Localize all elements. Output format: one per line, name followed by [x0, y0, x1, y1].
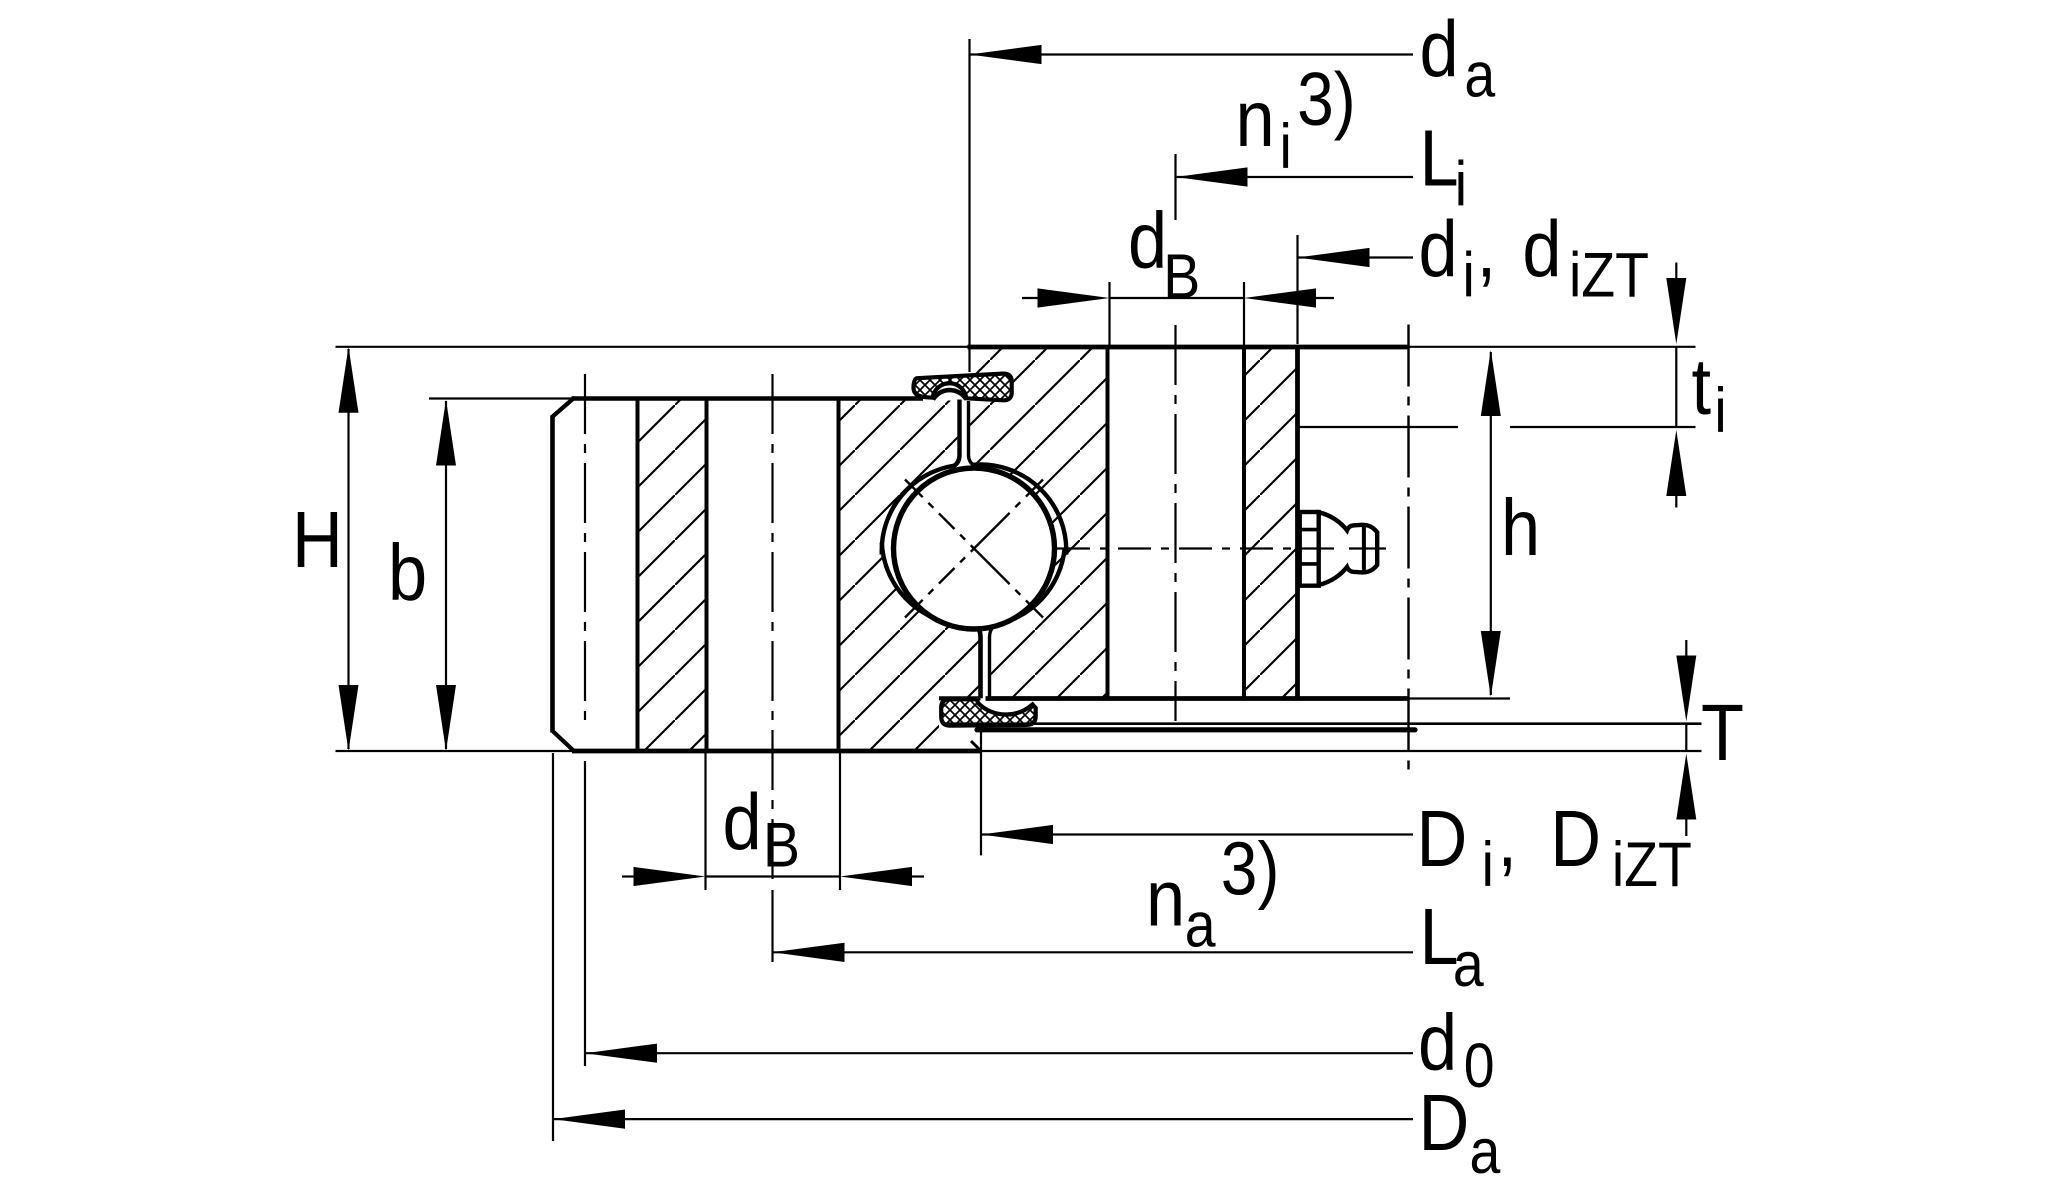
dimension d_B bottom right tick	[839, 753, 841, 890]
top seal body	[913, 374, 1011, 401]
svg-text:D: D	[1417, 794, 1468, 883]
dimension d_B bottom left arrow	[634, 867, 706, 886]
outer ring bottom edge thick	[572, 749, 981, 754]
dimension d_B bottom left tick	[704, 753, 706, 890]
dimension t_i connector	[1675, 347, 1677, 427]
dimension d_B top line	[1110, 297, 1245, 299]
b top extension line	[429, 397, 574, 399]
dimension D_i line	[981, 833, 1413, 835]
centerline outer band d0	[584, 374, 586, 723]
sealing strip thick line	[977, 727, 1415, 732]
ball centerline X diagonal 1	[905, 480, 1043, 618]
gap below ball left line	[977, 627, 981, 699]
gap above ball left line	[953, 400, 960, 467]
svg-text:a: a	[1185, 889, 1216, 960]
centerline outer bolt La	[771, 374, 773, 884]
label d_a	[1420, 5, 1496, 111]
inner ring top edge thick	[968, 345, 1409, 350]
dimension d_B top left arrow	[1038, 288, 1110, 307]
svg-text:d: d	[1420, 5, 1459, 94]
label D_a	[1419, 1078, 1501, 1187]
dimension d_B top right tick	[1243, 282, 1245, 345]
dimension d_0 arrow	[585, 1044, 657, 1063]
dimension H top arrow	[339, 347, 359, 413]
label h	[1501, 483, 1540, 572]
label d_B top	[1128, 196, 1200, 312]
svg-text:d: d	[1522, 204, 1561, 293]
label L_i	[1420, 113, 1468, 219]
dimension d_a line	[970, 53, 1414, 55]
dimension L_a extension line	[771, 890, 773, 962]
svg-text:d: d	[1418, 998, 1457, 1087]
centerline bore DiZT vertical	[1407, 325, 1409, 777]
svg-text:T: T	[1701, 688, 1744, 777]
dimension d_0 line	[585, 1052, 1413, 1054]
dimension T lower arrow	[1676, 754, 1696, 820]
grease nipple base flats line 1	[1300, 528, 1319, 532]
ball	[894, 468, 1055, 629]
svg-text:d: d	[1419, 204, 1458, 293]
dimension L_a arrow	[773, 943, 845, 962]
svg-text:B: B	[763, 809, 800, 880]
dimension h shaft	[1490, 352, 1492, 695]
svg-text:,: ,	[1477, 204, 1497, 293]
grease nipple neck and cap	[1319, 512, 1378, 585]
dimension L_i line	[1176, 176, 1414, 178]
dimension b bottom arrow	[436, 685, 456, 751]
svg-text:d: d	[723, 777, 762, 866]
dimension D_a line	[553, 1118, 1413, 1120]
dimension t_i upper arrow	[1675, 263, 1677, 291]
svg-text:,: ,	[1497, 794, 1517, 883]
label L_a	[1420, 892, 1484, 1000]
outer ring hatched band left	[638, 400, 707, 751]
inner ring hatched band right	[1244, 349, 1298, 697]
dimension d_0 extension line	[584, 761, 586, 1066]
svg-text:B: B	[1163, 241, 1200, 312]
svg-text:3): 3)	[1297, 57, 1356, 141]
svg-text:D: D	[1550, 794, 1601, 883]
dimension d_a arrow	[970, 45, 1042, 64]
outer raceway upper arc	[882, 466, 955, 555]
horizontal centerline through nipple	[1057, 547, 1340, 549]
inner ring hatched body around raceway	[969, 349, 1108, 697]
dimension L_i arrow	[1176, 167, 1248, 186]
outer ring recess line under top seal (nose dome)	[933, 390, 966, 399]
H/b bottom extension line	[336, 750, 575, 752]
outer ring band line 1	[636, 399, 640, 752]
centerline inner bolt Li	[1174, 325, 1176, 721]
grease nipple base flats line 2	[1300, 562, 1319, 566]
outer ring bottom-left chamfer	[552, 730, 576, 752]
dimension d_B bottom right arrow	[840, 867, 912, 886]
gap above ball right line	[969, 401, 975, 466]
label n_i 3)	[1236, 57, 1356, 182]
svg-text:a: a	[1470, 1116, 1501, 1187]
outer raceway lower arc	[882, 543, 976, 625]
dimension d_B bottom line	[706, 875, 841, 877]
svg-text:3): 3)	[1221, 827, 1280, 911]
svg-text:n: n	[1236, 74, 1275, 163]
svg-text:i: i	[1714, 374, 1726, 445]
grease nipple base block	[1300, 512, 1319, 586]
dimension D_a arrow	[553, 1110, 625, 1129]
dimension t_i lower reference line	[1298, 426, 1459, 428]
t_i top reference thin	[1409, 346, 1696, 348]
dimension h top arrow	[1481, 350, 1501, 416]
T bottom reference thin to right	[981, 750, 1702, 752]
label d_B bottom	[723, 777, 800, 880]
label d_i, d_iZT	[1419, 204, 1650, 310]
outer ring seal groove ceiling bottom	[939, 696, 981, 700]
dimension D_i extension line	[980, 723, 982, 855]
svg-text:h: h	[1501, 483, 1540, 572]
outer ring top-left chamfer	[552, 398, 575, 418]
gap below ball right line	[990, 627, 994, 698]
svg-text:d: d	[1128, 196, 1167, 285]
outer ring top edge	[572, 396, 924, 401]
svg-text:a: a	[1464, 39, 1495, 110]
svg-text:iZT: iZT	[1569, 239, 1649, 310]
dimension d_i extension line	[1296, 235, 1298, 344]
dimension d_i arrow	[1298, 248, 1370, 267]
dimension H bottom arrow	[339, 685, 359, 751]
dimension D_a extension line	[552, 753, 554, 1141]
inner ring band line 1	[1106, 347, 1110, 699]
outer ring band line 3	[837, 399, 841, 752]
svg-text:D: D	[1419, 1078, 1470, 1167]
inner ring bottom edge thick	[986, 696, 1409, 701]
svg-text:a: a	[1453, 929, 1484, 1000]
svg-text:n: n	[1146, 853, 1185, 942]
h bottom reference thin	[1409, 697, 1511, 699]
inner ring right edge	[1295, 347, 1300, 699]
svg-text:iZT: iZT	[1612, 829, 1692, 900]
dimension L_a line	[773, 951, 1414, 953]
svg-text:i: i	[1482, 829, 1494, 900]
dimension D_i arrow	[981, 825, 1053, 844]
svg-text:i: i	[1280, 111, 1292, 182]
ball centerline X diagonal 2	[905, 480, 1043, 618]
inner ring band line 2	[1242, 347, 1246, 699]
dimension d_B top right arrow	[1244, 288, 1316, 307]
dimension t_i lower arrow	[1666, 430, 1686, 496]
label n_a 3)	[1146, 827, 1279, 961]
dimension T connector	[1685, 724, 1687, 751]
svg-text:b: b	[388, 528, 427, 617]
dimension H shaft	[347, 349, 349, 749]
outer ring left edge	[550, 416, 555, 733]
label D_i, D_iZT	[1417, 794, 1692, 900]
dimension d_a extension line	[968, 39, 970, 372]
label d_0	[1418, 998, 1495, 1101]
label T	[1701, 688, 1744, 777]
svg-text:t: t	[1692, 342, 1712, 431]
dimension L_i extension tick	[1174, 154, 1176, 220]
label H	[292, 495, 343, 584]
label t_i	[1692, 342, 1727, 446]
dimension T upper arrow	[1685, 640, 1687, 665]
svg-text:i: i	[1463, 239, 1475, 310]
inner raceway upper arc	[973, 464, 1066, 554]
dimension d_i line	[1298, 256, 1414, 258]
label b	[388, 528, 427, 617]
svg-text:L: L	[1420, 113, 1459, 202]
dimension b top arrow	[436, 400, 456, 466]
outer ring band line 2	[705, 399, 709, 752]
grease nipple cap face line	[1362, 525, 1366, 572]
inner raceway lower arc	[994, 549, 1065, 626]
dimension d_B top left tick	[1108, 282, 1110, 345]
svg-text:H: H	[292, 495, 343, 584]
outer ring hatched body around raceway	[839, 401, 981, 752]
plate top line (T upper reference)	[943, 722, 1702, 725]
outer ring inner bottom chamfer	[971, 741, 981, 751]
H top extension line	[336, 346, 968, 348]
bottom seal body	[941, 699, 1035, 725]
dimension h bottom arrow	[1481, 631, 1501, 697]
dimension b shaft	[445, 401, 447, 749]
